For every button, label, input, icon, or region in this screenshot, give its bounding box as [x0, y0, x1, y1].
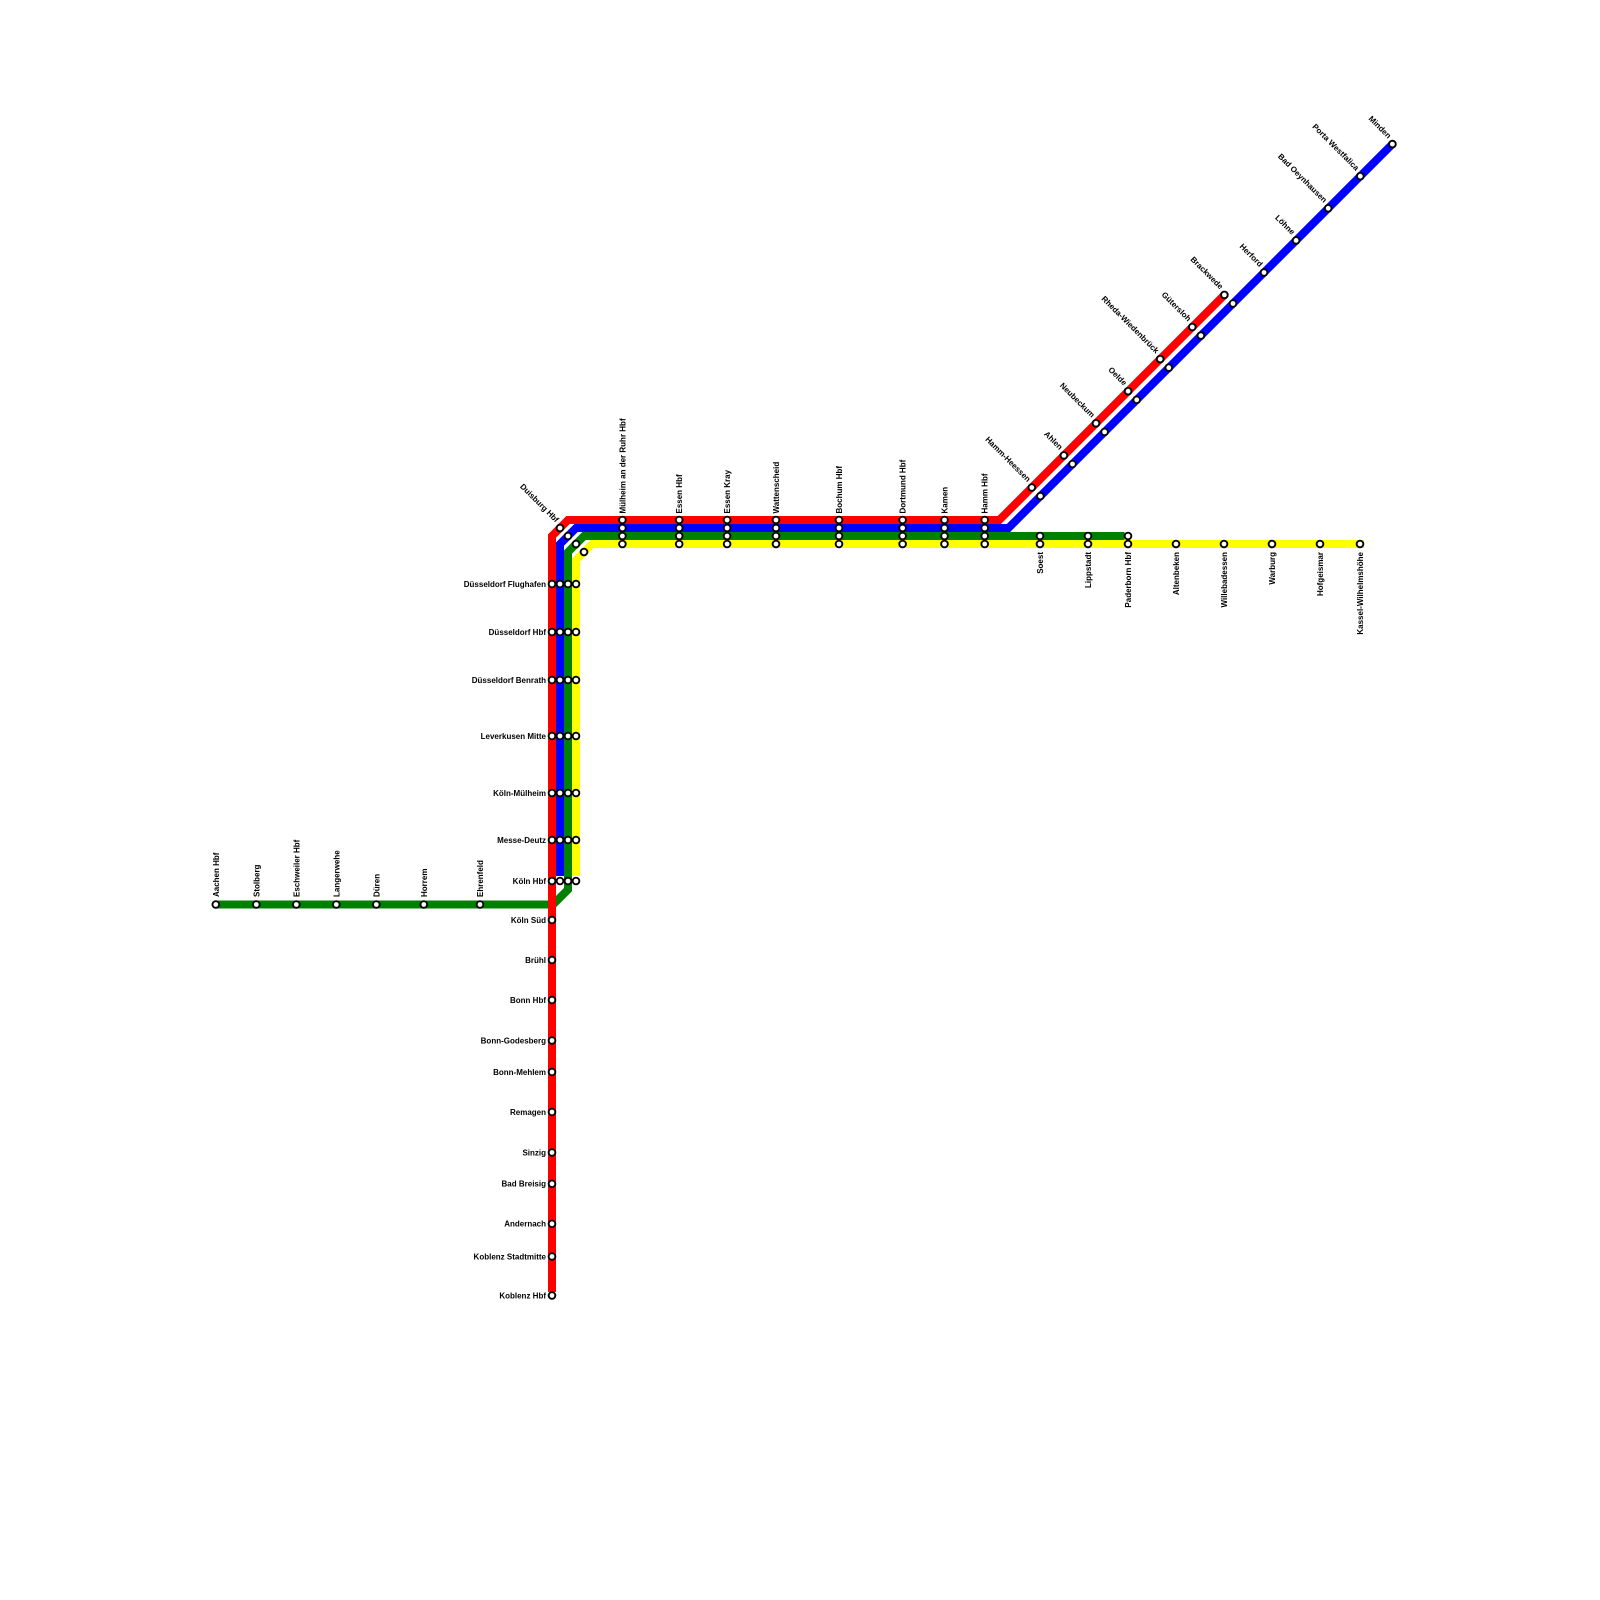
svg-text:Langerwehe: Langerwehe	[332, 850, 341, 897]
svg-text:Messe-Deutz: Messe-Deutz	[497, 836, 546, 845]
svg-text:Brühl: Brühl	[525, 956, 546, 965]
svg-text:Willebadessen: Willebadessen	[1220, 552, 1229, 608]
svg-text:Kamen: Kamen	[941, 487, 950, 514]
svg-text:Warburg: Warburg	[1268, 552, 1277, 585]
svg-text:Stolberg: Stolberg	[252, 864, 261, 897]
svg-text:Bochum Hbf: Bochum Hbf	[835, 466, 844, 514]
svg-text:Köln Süd: Köln Süd	[511, 916, 546, 925]
svg-text:Soest: Soest	[1036, 552, 1045, 574]
svg-text:Ehrenfeld: Ehrenfeld	[476, 860, 485, 897]
svg-text:Koblenz Hbf: Koblenz Hbf	[499, 1291, 546, 1300]
svg-text:Essen Kray: Essen Kray	[723, 469, 732, 513]
svg-text:Bad Breisig: Bad Breisig	[502, 1180, 547, 1189]
svg-text:Bonn-Mehlem: Bonn-Mehlem	[493, 1068, 546, 1077]
svg-text:Bonn-Godesberg: Bonn-Godesberg	[481, 1036, 546, 1045]
svg-text:Lippstadt: Lippstadt	[1084, 552, 1093, 588]
svg-text:Altenbeken: Altenbeken	[1172, 552, 1181, 595]
svg-text:Dortmund Hbf: Dortmund Hbf	[899, 459, 908, 513]
svg-text:Koblenz Stadtmitte: Koblenz Stadtmitte	[474, 1252, 547, 1261]
svg-text:Düren: Düren	[372, 874, 381, 897]
svg-text:Andernach: Andernach	[504, 1220, 546, 1229]
svg-text:Hamm Hbf: Hamm Hbf	[981, 473, 990, 513]
svg-text:Horrem: Horrem	[420, 869, 429, 897]
svg-text:Essen Hbf: Essen Hbf	[675, 474, 684, 513]
svg-text:Eschweiler Hbf: Eschweiler Hbf	[292, 839, 301, 897]
svg-text:Düsseldorf Benrath: Düsseldorf Benrath	[472, 676, 546, 685]
svg-text:Paderborn Hbf: Paderborn Hbf	[1124, 552, 1133, 608]
svg-text:Leverkusen Mitte: Leverkusen Mitte	[481, 732, 547, 741]
svg-text:Hofgeismar: Hofgeismar	[1316, 552, 1325, 596]
svg-text:Remagen: Remagen	[510, 1108, 546, 1117]
svg-text:Aachen Hbf: Aachen Hbf	[212, 852, 221, 897]
svg-text:Bonn Hbf: Bonn Hbf	[510, 996, 546, 1005]
svg-text:Kassel-Wilhelmshöhe: Kassel-Wilhelmshöhe	[1356, 551, 1365, 634]
svg-text:Düsseldorf Hbf: Düsseldorf Hbf	[489, 628, 547, 637]
svg-text:Wattenscheid: Wattenscheid	[772, 462, 781, 514]
svg-text:Mülheim an der Ruhr Hbf: Mülheim an der Ruhr Hbf	[618, 418, 627, 513]
svg-text:Köln Hbf: Köln Hbf	[513, 877, 547, 886]
svg-text:Köln-Mülheim: Köln-Mülheim	[493, 789, 546, 798]
svg-text:Sinzig: Sinzig	[522, 1148, 546, 1157]
svg-text:Düsseldorf Flughafen: Düsseldorf Flughafen	[464, 580, 546, 589]
